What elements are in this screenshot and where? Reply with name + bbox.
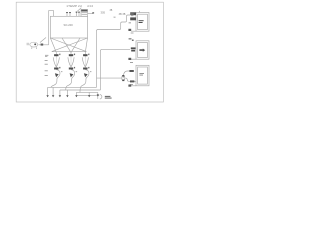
svg-text:3B: 3B — [110, 10, 113, 12]
svg-text:3B 3B: 3B 3B — [119, 13, 126, 16]
svg-text:1TEMP 2d: 1TEMP 2d — [66, 4, 82, 8]
svg-text:SO-200: SO-200 — [64, 23, 74, 27]
svg-text:d.3.0: d.3.0 — [87, 4, 93, 8]
svg-text:305: 305 — [101, 10, 106, 14]
